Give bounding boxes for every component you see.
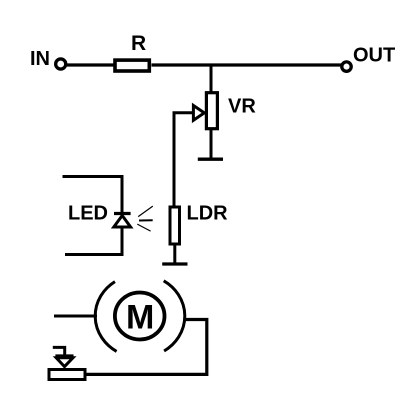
terminal OUT xyxy=(342,62,351,71)
light ray 1 xyxy=(138,206,153,217)
ground below VR xyxy=(198,157,223,160)
terminal IN xyxy=(56,59,66,69)
svg-text:M: M xyxy=(126,299,154,337)
svg-text:VR: VR xyxy=(228,96,256,118)
wire wiper down to LDR xyxy=(174,113,193,207)
LED triangle xyxy=(114,216,131,228)
wire motor left xyxy=(54,315,97,318)
light ray 2 xyxy=(139,219,153,221)
wire LED top xyxy=(63,177,123,213)
wire LDR to ground xyxy=(173,245,176,263)
wire R to OUT xyxy=(152,63,343,66)
wire junction to VR xyxy=(210,65,213,93)
preset wiper arrow xyxy=(56,358,73,367)
ground below LDR xyxy=(162,262,187,265)
wire motor right xyxy=(86,320,207,375)
svg-text:IN: IN xyxy=(30,48,50,70)
svg-text:OUT: OUT xyxy=(353,45,395,67)
wire VR to ground xyxy=(210,129,213,158)
motor left brush arc xyxy=(95,282,116,352)
wire LED bottom xyxy=(65,228,122,255)
wiper arrow of VR xyxy=(193,106,204,121)
resistor LDR xyxy=(170,207,180,244)
motor right brush arc xyxy=(164,281,185,351)
resistor R xyxy=(115,60,149,71)
svg-text:LDR: LDR xyxy=(187,203,229,225)
LED cathode bar xyxy=(114,212,131,215)
svg-text:LED: LED xyxy=(68,203,108,225)
wire IN to R xyxy=(67,63,115,66)
variable resistor VR xyxy=(206,93,217,129)
svg-text:R: R xyxy=(131,32,146,55)
light ray 3 xyxy=(137,224,150,231)
preset wiper bar xyxy=(55,354,73,357)
preset resistor box xyxy=(49,370,85,380)
motor M inner circle xyxy=(115,293,165,340)
wire preset wiper xyxy=(53,347,65,356)
